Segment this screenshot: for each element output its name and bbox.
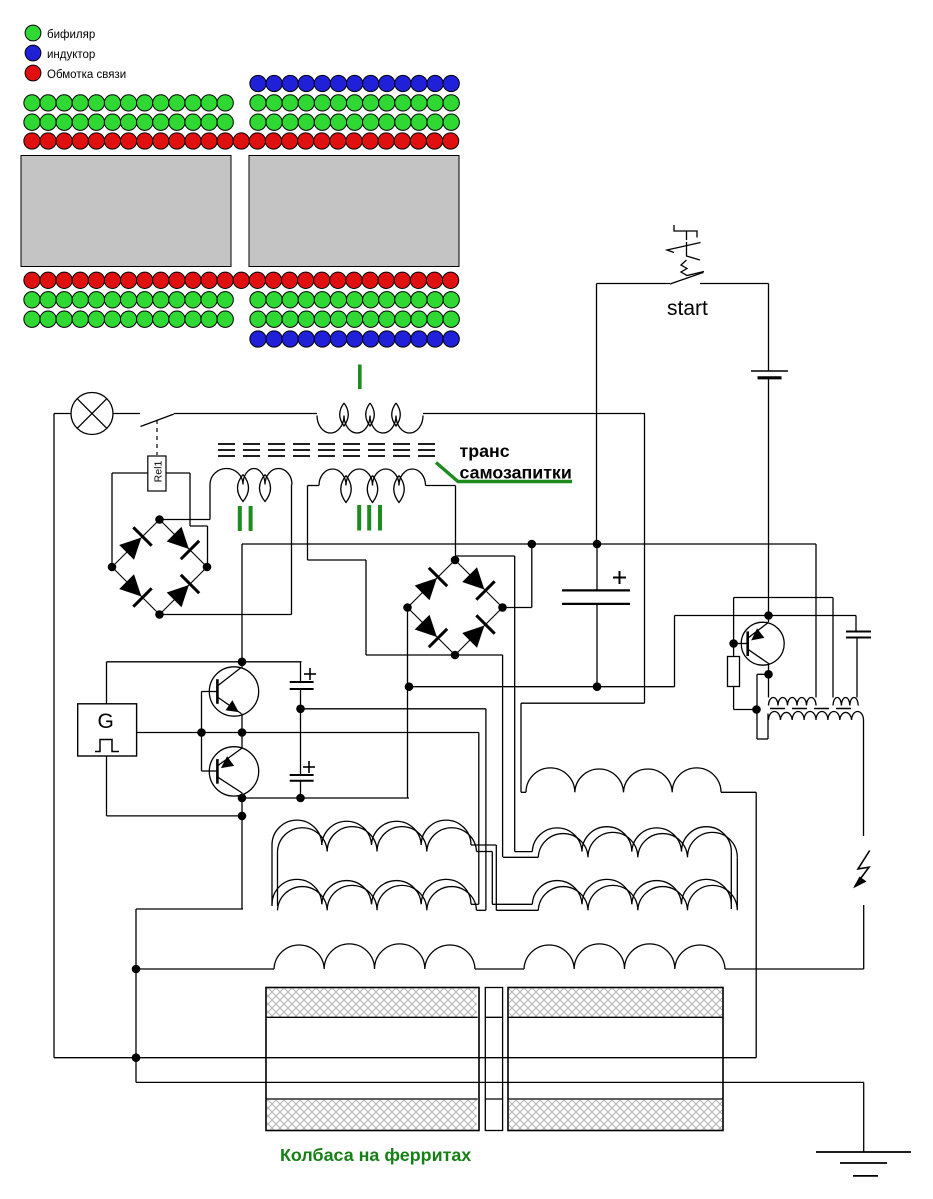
diode bridge B1 node bottom <box>155 610 164 619</box>
wire left column vertical <box>53 414 55 1058</box>
junction <box>729 639 738 648</box>
winding L4 (bottom, group 2) <box>524 944 725 969</box>
transistor Q2 (PNP) <box>209 747 258 796</box>
wire bottom loop horizontal <box>136 908 243 910</box>
wire y708 drop to bifilar outer <box>485 709 487 911</box>
wire Q3 collector lead <box>768 616 770 623</box>
svg-text:G: G <box>98 710 114 733</box>
spark gap (lightning arrow) <box>853 851 870 889</box>
wire step to bridge right node <box>190 525 208 527</box>
bifilar turns row (bottom right 2, green) <box>250 311 460 327</box>
winding L3a line 2 <box>538 832 737 857</box>
wire C1 bottom lead <box>300 689 302 709</box>
wire L1 left stub <box>521 791 526 793</box>
junction <box>764 611 773 620</box>
winding L2a (bifilar upper-left, line 1) <box>272 820 471 845</box>
ferrite sausage middle strip <box>485 988 502 1131</box>
wire emitter drop <box>756 674 758 739</box>
wire winding II right lead down <box>291 485 293 615</box>
wire C1 top lead <box>300 662 302 682</box>
bifilar turns row (top left 2, green) <box>24 114 234 130</box>
wire Q1 emitter lead <box>241 714 243 733</box>
winding L2b (bifilar lower-left, line 1) <box>272 879 471 904</box>
wire winding III left lead <box>308 485 320 487</box>
wire bridge2 right node to rail riser <box>503 607 532 609</box>
wire winding III left lead down <box>307 486 309 561</box>
winding L4 (bottom, group 1) <box>274 944 475 969</box>
junction <box>238 658 247 667</box>
winding L3b line 2 <box>538 885 737 910</box>
wire step right <box>308 559 367 561</box>
wire down to bridge right node <box>207 526 209 567</box>
wire Q1 base <box>202 691 218 693</box>
transformer T2 upper winding B <box>833 698 858 706</box>
wire Rel1 left <box>112 472 148 474</box>
wire y703 link <box>521 702 645 704</box>
bifilar turns row (bottom left 2, green) <box>24 311 234 327</box>
wire winding I right to right drop <box>423 413 645 415</box>
svg-text:Rel1: Rel1 <box>153 461 165 483</box>
wire L2a left tail 2 <box>277 852 279 907</box>
wire start left down to rail <box>596 284 598 545</box>
winding L2a line 2 <box>278 827 477 852</box>
wire bridge2 top tee right <box>455 555 515 557</box>
wire Q2 bottom lead <box>241 793 243 798</box>
winding II <box>210 469 292 502</box>
svg-text:Колбаса на ферритах: Колбаса на ферритах <box>280 1145 471 1165</box>
wire L3a left stub 2 <box>503 856 538 858</box>
junction <box>132 965 141 974</box>
wire start left <box>597 283 671 285</box>
wire Q3 emitter lead <box>768 665 770 675</box>
green label II <box>238 506 242 531</box>
junction <box>296 705 305 714</box>
diode bridge B2 node top <box>451 556 460 565</box>
wire Q1 base riser <box>201 692 203 733</box>
relay switch blade (open) <box>141 414 175 427</box>
diode bridge B2 <box>408 560 503 655</box>
junction <box>197 728 206 737</box>
wire left riser x136 <box>135 909 137 1082</box>
transformer T2 lower winding <box>769 711 864 720</box>
wire C1-C2 link <box>300 709 302 775</box>
transformer core (dashed lines) <box>218 444 440 456</box>
diode bridge B2 node left <box>403 603 412 612</box>
wire G loop top <box>107 661 302 663</box>
wire bridge1 top to winding II <box>160 519 211 521</box>
diode bridge B1 node right <box>203 563 212 572</box>
wire Q2 top lead <box>241 733 243 749</box>
lamp <box>71 393 113 435</box>
wire C4 top lead <box>855 616 857 632</box>
wire bridge1 bottom to winding II right <box>160 614 292 616</box>
ferrite sausage left block <box>266 988 479 1131</box>
svg-text:бифиляр: бифиляр <box>47 29 95 41</box>
wire up to T2 lower winding left end <box>767 714 769 740</box>
junction <box>593 682 602 691</box>
ground <box>816 1152 911 1176</box>
diode bridge B1 node top <box>155 515 164 524</box>
wire Rel1 right down <box>189 473 191 526</box>
wire L1 left riser <box>520 703 522 792</box>
wire Rel1 right <box>166 472 190 474</box>
start switch blade <box>670 272 703 284</box>
wire battery down to Q3 collector node <box>768 378 770 616</box>
wire emitter tee <box>757 673 769 675</box>
capacitor C2 (+) <box>290 761 315 781</box>
wire down to T2 upper winding left end <box>768 674 770 697</box>
capacitor C4 <box>846 632 871 638</box>
wire rail left drop to Q1 collector <box>241 544 243 662</box>
wire bottom winding left <box>136 968 274 970</box>
svg-text:транс: транс <box>460 441 510 461</box>
wire U-turn bottom <box>757 738 768 740</box>
winding L2b line 2 <box>278 885 477 910</box>
svg-text:start: start <box>667 297 708 320</box>
bifilar turns row (bottom right 1, green) <box>250 292 460 308</box>
junction <box>238 728 247 737</box>
wire bridge2 top down to bifilar (inner) <box>514 556 516 852</box>
green label III <box>357 505 361 531</box>
diode bridge B2 node bottom <box>451 651 460 660</box>
wire L2a right stub 2 <box>477 851 493 853</box>
wire L3a left stub 1 <box>515 851 533 853</box>
wire L1 right drop to sausage wire <box>755 792 757 1057</box>
bifilar turns row (top right 1, green) <box>250 95 460 111</box>
wire Q2 emitter to bottom bus <box>241 798 243 816</box>
wire R1 bottom lead <box>733 687 735 710</box>
wire L3a right tail 1 <box>730 852 732 909</box>
junction <box>593 540 602 549</box>
wire L3b left stub 2 <box>496 909 538 911</box>
wire C3 bottom lead <box>596 604 598 687</box>
wire G loop bottom <box>107 815 243 817</box>
wire Q2 base <box>202 770 218 772</box>
wire C4 bottom to T2 upper B right <box>856 638 858 698</box>
bifilar turns row (bottom left 1, green) <box>24 292 234 308</box>
coupling winding row (bottom, red, continuous) <box>24 272 459 288</box>
junction <box>405 682 414 691</box>
junction <box>132 1053 141 1062</box>
generator block G <box>78 704 137 756</box>
capacitor C1 (+) <box>290 668 316 689</box>
wire L2b right stub 2 <box>477 909 486 911</box>
legend red circle (Обмотка связи) <box>25 65 41 81</box>
bifilar turns row (top left 1, green) <box>24 95 234 111</box>
wire through sausage 2 <box>136 1081 864 1083</box>
wire L1 right <box>721 791 756 793</box>
wire y732 drop to bifilar inner <box>478 733 480 905</box>
resistor R1 <box>728 657 740 687</box>
legend blue circle (индуктор) <box>25 45 41 61</box>
wire R1 top lead <box>733 644 735 657</box>
inductor turns row (bottom right, blue) <box>250 331 460 347</box>
green label I <box>358 365 362 390</box>
wire bus y798 <box>242 797 409 799</box>
battery GB1 <box>751 371 788 378</box>
wire winding I right drop <box>644 414 646 704</box>
wire G loop top left <box>106 662 108 704</box>
bifilar turns row (top right 2, green) <box>250 114 460 130</box>
wire winding III right lead <box>426 485 456 487</box>
wire L2a drop 2 <box>491 852 493 905</box>
junction <box>752 705 761 714</box>
wire Q3 base riser <box>733 598 735 644</box>
winding I (primary coil) <box>317 403 423 433</box>
wire y597 down to T2 upper B left <box>832 598 834 698</box>
wire bus y708 <box>301 708 486 710</box>
winding L3a (bifilar middle-right, line 1) <box>532 827 731 852</box>
wire G loop bottom left <box>106 756 108 816</box>
junction <box>528 540 537 549</box>
wire down to bridge bottom line <box>365 560 367 655</box>
wire bridge2 bottom right <box>455 654 503 656</box>
wire L3b left stub 1 <box>492 903 532 905</box>
transistor Q1 (NPN) <box>209 667 258 716</box>
wire Rel1 left down to bridge <box>111 473 113 567</box>
wire winding II left lead <box>209 485 211 520</box>
junction <box>764 670 773 679</box>
wire battery top <box>768 284 770 372</box>
wire G output bus y732 <box>137 732 479 734</box>
wire bottom winding right <box>725 968 864 970</box>
transformer T2 upper winding A <box>769 698 817 706</box>
wire main rail (+) <box>242 543 816 545</box>
transistor Q3 (PNP) <box>741 622 784 665</box>
wire Q3 base <box>734 643 748 645</box>
capacitor C3 (electrolytic, main) <box>562 571 630 604</box>
wire bus y687 <box>409 686 675 688</box>
ferrite core block (left) <box>21 156 231 267</box>
junction <box>238 812 247 821</box>
wire start right <box>700 283 769 285</box>
ferrite core block (right) <box>249 156 459 267</box>
dashed mechanical link to Rel1 <box>156 420 158 455</box>
ferrite sausage right block <box>508 988 723 1131</box>
wire C3 top lead <box>596 544 598 590</box>
green pointer line <box>436 463 572 482</box>
wire L2b right stub 1 <box>471 903 479 905</box>
wire down to bottom loop <box>241 816 243 909</box>
wire y615 bus <box>675 615 857 617</box>
svg-text:индуктор: индуктор <box>47 49 95 61</box>
wire winding III right lead down to bridge top <box>455 486 457 561</box>
pulse symbol in G <box>95 740 119 752</box>
wire L3a right tail 2 <box>736 857 738 909</box>
wire y597 bus <box>734 597 833 599</box>
junction <box>296 794 305 803</box>
wire lamp to switch contact <box>113 413 140 415</box>
wire lamp left <box>54 413 71 415</box>
winding L1 (upper right single) <box>526 768 721 792</box>
wire C2 bottom lead <box>300 781 302 798</box>
wire R1 to emitter drop <box>734 709 757 711</box>
transformer T2 core (dashes) <box>770 708 856 710</box>
svg-text:Обмотка связи: Обмотка связи <box>47 69 126 81</box>
pushbutton start (spring symbol) <box>667 225 704 276</box>
diode bridge B1 node left <box>108 563 117 572</box>
wire spark gap to bottom winding <box>863 905 865 969</box>
wire through sausage 1 <box>54 1057 756 1059</box>
wire y615 left drop <box>674 616 676 687</box>
wire bridge2 bottom down to bifilar (outer) <box>502 655 504 857</box>
wire L2a left tail 1 <box>271 845 273 906</box>
wire main rail down to T2 upper A right <box>815 544 817 698</box>
wire to ground <box>863 1082 865 1152</box>
wire L2a right stub 1 <box>471 844 496 846</box>
wire bridge2 left node down <box>407 608 409 799</box>
wire Q1 collector lead <box>241 662 243 668</box>
wire riser to main rail <box>531 544 533 608</box>
inductor turns row (top right, blue) <box>250 75 460 91</box>
wire to bridge 2 bottom node <box>366 654 455 656</box>
relay Rel1 <box>148 456 166 491</box>
wire switch to winding I <box>174 413 317 415</box>
svg-text:самозапитки: самозапитки <box>460 463 572 483</box>
legend green circle (бифиляр) <box>25 25 41 41</box>
diode bridge B1 <box>112 520 207 615</box>
diode bridge B2 node right <box>498 603 507 612</box>
coupling winding row (top, red, continuous) <box>24 133 459 149</box>
wire L2a drop 1 <box>495 845 497 910</box>
junction <box>238 794 247 803</box>
winding III <box>319 469 426 502</box>
wire Q2 base riser <box>201 733 203 772</box>
wire between L4 groups <box>475 968 524 970</box>
winding L3b (bifilar lower-right, line 1) <box>532 879 731 904</box>
wire T2 lower right down to spark gap <box>863 720 865 836</box>
